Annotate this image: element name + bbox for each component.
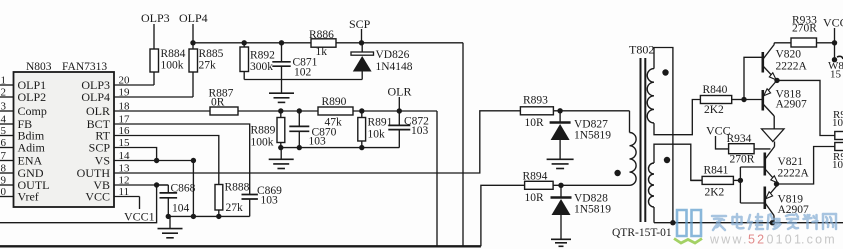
- svg-text:R889: R889: [251, 125, 276, 137]
- wire VCC stub to R934: [716, 136, 729, 149]
- svg-text:270R: 270R: [730, 154, 755, 166]
- resistor R888: [215, 185, 223, 211]
- wire OLP3 stub: [153, 24, 155, 49]
- svg-text:SCP: SCP: [349, 17, 371, 31]
- svg-text:2: 2: [1, 87, 7, 99]
- svg-text:7: 7: [1, 150, 7, 162]
- pin 1 stub (left): [0, 84, 14, 86]
- svg-text:QTR-15T-01: QTR-15T-01: [612, 227, 672, 239]
- svg-text:15: 15: [830, 69, 842, 81]
- watermark book icon: [677, 210, 701, 236]
- ground symbol under C868: [169, 216, 171, 228]
- svg-text:10: 10: [0, 186, 7, 198]
- svg-text:VCC: VCC: [823, 16, 843, 30]
- wire R933 left lead: [774, 42, 791, 44]
- node VB junction: [154, 182, 159, 187]
- svg-text:OLR: OLR: [388, 85, 412, 99]
- capacitor C869: [242, 194, 258, 196]
- capacitor C871: [279, 40, 284, 45]
- svg-text:1N4148: 1N4148: [376, 61, 413, 73]
- ground symbol VD828: [551, 238, 571, 240]
- svg-text:103: 103: [411, 125, 429, 137]
- wire base feed V818: [744, 99, 762, 101]
- wire pin15 SCP: [114, 148, 157, 161]
- capacitor C868: [157, 184, 169, 186]
- wire R933 right lead to VCC: [817, 42, 835, 44]
- pin 5 stub (left): [0, 135, 14, 137]
- svg-text:2K2: 2K2: [704, 104, 724, 116]
- svg-text:.com: .com: [801, 233, 837, 247]
- transformer secondary top winding: [647, 69, 654, 123]
- svg-text:4: 4: [1, 114, 7, 126]
- zener diode W820 (cut off): [832, 57, 837, 62]
- diode VD827 1N5819: [559, 111, 561, 122]
- secondary top bottom-lead to R840: [654, 100, 700, 135]
- svg-text:100k: 100k: [161, 60, 184, 72]
- wire OLR vertical down at x437: [436, 111, 438, 246]
- svg-text:R890: R890: [322, 96, 347, 108]
- resistor R884: [150, 49, 159, 72]
- svg-text:10: 10: [832, 117, 843, 129]
- node VD828 junction: [558, 183, 563, 188]
- node base junction top pair: [741, 97, 746, 102]
- svg-text:R892: R892: [250, 50, 275, 62]
- svg-text:0R: 0R: [211, 96, 225, 108]
- svg-text:SCP: SCP: [89, 141, 111, 155]
- wire bottom emitters output: [777, 147, 835, 185]
- secondary top polarity dot: [662, 69, 668, 75]
- svg-text:OLR: OLR: [86, 104, 110, 118]
- svg-text:VCC: VCC: [85, 190, 110, 204]
- svg-text:103: 103: [309, 136, 327, 148]
- wire bottom ground rail y216.4: [168, 215, 249, 217]
- pin 4 stub (left): [0, 123, 14, 125]
- node VCC junction: [832, 40, 837, 45]
- wire R893 out to primary: [553, 110, 629, 112]
- svg-text:OLP4: OLP4: [179, 11, 208, 25]
- svg-text:OLP4: OLP4: [81, 90, 110, 104]
- svg-text:A2907: A2907: [776, 99, 808, 111]
- svg-text:N803: N803: [26, 61, 52, 73]
- svg-text:10R: 10R: [525, 192, 545, 204]
- wire V819 collector to rail: [773, 216, 775, 223]
- transformer core: [640, 58, 642, 222]
- wire pin12 VB: [114, 184, 168, 186]
- wire OLP4 stub: [192, 24, 194, 49]
- svg-text:1N5819: 1N5819: [574, 204, 611, 216]
- resistor R887: [210, 107, 238, 115]
- svg-text:10: 10: [832, 159, 843, 171]
- node VD827 junction: [557, 108, 562, 113]
- svg-text:V820: V820: [776, 49, 802, 61]
- pin 3 stub (left): [0, 110, 14, 112]
- svg-text:VD826: VD826: [376, 49, 410, 61]
- svg-text:VCC1: VCC1: [124, 210, 155, 224]
- svg-text:52: 52: [748, 233, 766, 247]
- transistor V818 A2907: [761, 90, 764, 111]
- svg-text:OLP2: OLP2: [18, 90, 47, 104]
- svg-text:1N5819: 1N5819: [574, 130, 611, 142]
- node rail junction x672.9: [670, 220, 675, 225]
- capacitor C872: [398, 111, 400, 125]
- pin 9 stub (left): [0, 184, 14, 186]
- node OLP4 junction: [190, 40, 195, 45]
- transformer secondary bottom winding: [649, 163, 655, 207]
- svg-text:3: 3: [1, 101, 7, 113]
- secondary bottom polarity dot: [664, 157, 670, 163]
- pin 8 stub (left): [0, 172, 14, 174]
- resistor R889: [280, 111, 282, 118]
- svg-text:R841: R841: [704, 165, 729, 177]
- pin 7 stub (left): [0, 160, 14, 162]
- ground symbol VD827: [547, 158, 574, 160]
- svg-text:1: 1: [1, 75, 7, 87]
- ground symbol under C871: [281, 80, 283, 94]
- transistor V821 2222A: [763, 153, 766, 176]
- wire pin14 VS: [114, 160, 193, 162]
- open triangle symbol: [762, 129, 785, 142]
- wire pin20 to R884: [114, 84, 154, 86]
- wire VCC vertical: [834, 28, 836, 61]
- svg-text:0101: 0101: [767, 233, 804, 247]
- secondary bottom top-lead to R841: [654, 144, 702, 180]
- svg-text:2222A: 2222A: [778, 168, 810, 180]
- diode VD828 1N5819: [560, 185, 562, 196]
- svg-text:270R: 270R: [792, 23, 817, 35]
- resistor R890: [318, 107, 353, 115]
- node C870 top: [297, 108, 302, 113]
- wire VB down and left offpage: [0, 185, 157, 223]
- watermark chinese text: [712, 214, 836, 230]
- IC U-N803 FAN7313 body: [14, 72, 115, 207]
- svg-text:102: 102: [294, 67, 312, 79]
- svg-text:5: 5: [1, 125, 7, 137]
- svg-text:www.: www.: [709, 233, 749, 247]
- wire pin16 RT to R888: [114, 136, 219, 185]
- wire pin18 OLR line left segment: [114, 110, 210, 112]
- capacitor C870: [298, 111, 300, 126]
- node VS line junction at x193: [191, 158, 196, 163]
- wire pin13 OUTH long line: [114, 111, 520, 173]
- resistor R9xx top (cut off): [835, 132, 843, 140]
- wire R841 leads: [691, 179, 702, 181]
- svg-text:10k: 10k: [368, 129, 386, 141]
- svg-text:R893: R893: [523, 95, 548, 107]
- wire local ground rail y79.5: [244, 79, 362, 81]
- svg-text:R885: R885: [199, 48, 224, 60]
- svg-text:103: 103: [261, 195, 279, 207]
- transistor V819 A2907: [763, 187, 766, 210]
- wire R894 feed from bottom: [481, 185, 525, 246]
- svg-text:R888: R888: [225, 182, 250, 194]
- svg-text:R840: R840: [703, 84, 728, 96]
- wire OLR line right: [353, 110, 437, 112]
- node OLR junction: [397, 108, 402, 113]
- wire top line OLP4 to R886: [193, 42, 311, 44]
- ground symbol under filter rail: [280, 148, 282, 160]
- svg-text:6: 6: [1, 137, 7, 149]
- svg-text:104: 104: [172, 203, 190, 215]
- svg-text:Comp: Comp: [18, 104, 47, 118]
- wire R886 to SCP node and right: [336, 42, 463, 44]
- node SCP junction: [359, 40, 364, 45]
- svg-text:OLP3: OLP3: [141, 11, 170, 25]
- svg-text:2222A: 2222A: [776, 61, 808, 73]
- svg-text:R886: R886: [309, 29, 334, 41]
- node pin14/pin15 junction: [154, 158, 159, 163]
- node V819 collector on rail: [770, 220, 775, 225]
- svg-text:V821: V821: [778, 156, 804, 168]
- wire x193 vertical to ground rail: [192, 161, 194, 217]
- wire top emitters output: [777, 80, 835, 135]
- wire filter ground rail y147.6: [281, 147, 400, 149]
- wire base riser bottom pair: [739, 167, 741, 203]
- pin 10 stub (left): [0, 196, 14, 198]
- node R891 top: [359, 108, 364, 113]
- net label VCC1: [139, 197, 141, 210]
- resistor R885: [189, 49, 198, 72]
- node base junction bottom pair: [738, 178, 743, 183]
- wire pin17 BCT: [114, 124, 250, 195]
- wire bottom rail y245.8: [0, 245, 481, 247]
- svg-text:Adim: Adim: [18, 141, 46, 155]
- pin 2 stub (left): [0, 96, 14, 98]
- wire R840 to base node: [732, 99, 744, 101]
- wire pin19 to R885: [114, 96, 193, 98]
- wire OLR line middle: [238, 110, 318, 112]
- svg-text:C868: C868: [171, 183, 196, 195]
- node R889 top: [278, 108, 283, 113]
- transistor V820 2222A: [761, 52, 764, 73]
- wire pin11 VCC stub: [114, 196, 140, 198]
- transformer primary winding: [629, 111, 631, 133]
- node emitters top pair: [774, 78, 779, 83]
- wire OLR stub: [398, 97, 400, 111]
- svg-text:FAN7313: FAN7313: [62, 61, 107, 73]
- wire V818 collector down: [773, 116, 775, 129]
- pin 6 stub (left): [0, 147, 14, 149]
- svg-text:300k: 300k: [250, 61, 273, 73]
- resistor R891: [361, 111, 363, 118]
- svg-text:27k: 27k: [226, 202, 244, 214]
- svg-text:27k: 27k: [199, 60, 217, 72]
- wire R934 right lead: [754, 148, 770, 150]
- svg-text:R884: R884: [161, 48, 186, 60]
- wire base riser to V820: [744, 57, 762, 99]
- svg-text:9: 9: [1, 175, 7, 187]
- svg-text:R891: R891: [368, 117, 393, 129]
- primary polarity dot: [614, 170, 620, 176]
- secondary bottom bottom-lead: [653, 207, 655, 223]
- resistor R9xx bottom (cut off): [835, 143, 843, 151]
- svg-text:Vref: Vref: [18, 190, 39, 204]
- node emitters bottom pair: [774, 181, 779, 186]
- resistor R886: [311, 39, 336, 47]
- svg-text:2K2: 2K2: [705, 187, 725, 199]
- svg-text:10R: 10R: [525, 117, 545, 129]
- svg-text:T802: T802: [629, 43, 654, 57]
- svg-text:100k: 100k: [251, 137, 274, 149]
- wire R894 out to primary: [553, 184, 629, 186]
- diode VD826 1N4148: [351, 52, 374, 55]
- svg-text:8: 8: [1, 163, 7, 175]
- wire SCP stub: [361, 29, 363, 43]
- wire SCP line vertical down: [462, 43, 464, 247]
- wire secondary common rail y222.7: [654, 222, 843, 224]
- resistor R892: [242, 40, 247, 45]
